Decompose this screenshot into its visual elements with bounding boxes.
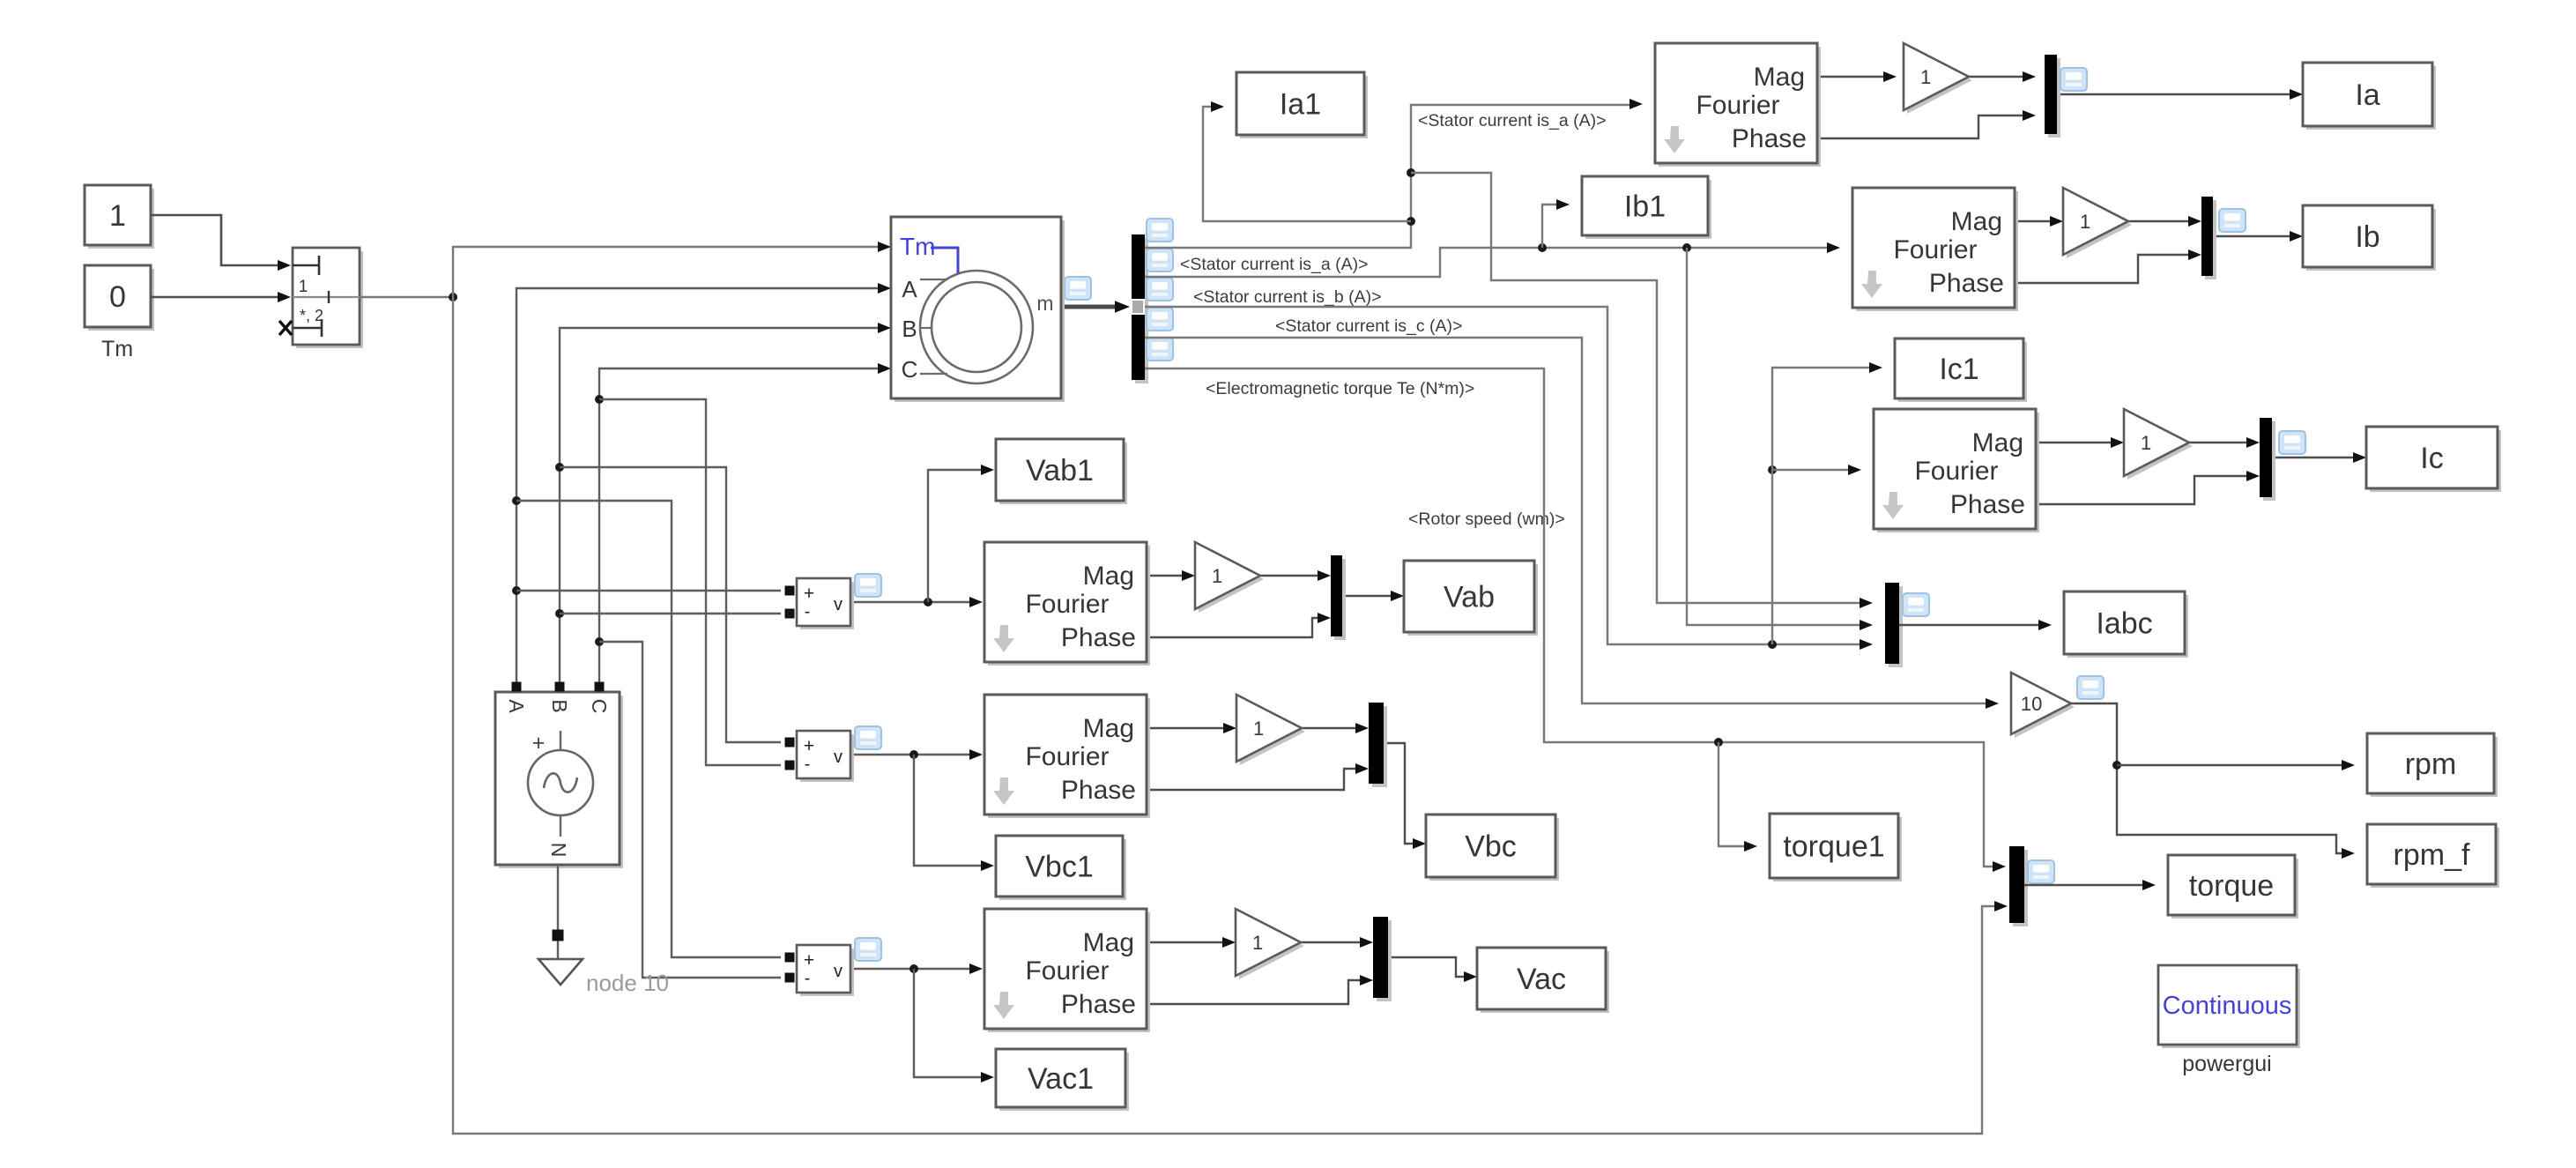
svg-text:Mag: Mag bbox=[1754, 63, 1805, 92]
Fourier block Ib bbox=[1856, 191, 2018, 311]
gain 1 Ic bbox=[2127, 413, 2193, 480]
gain 1 Ib bbox=[2067, 191, 2132, 258]
svg-text:Vac1: Vac1 bbox=[1028, 1062, 1094, 1096]
wire is_c to Fourier Ic bbox=[1772, 469, 1849, 471]
wire mux to Vab display bbox=[1342, 595, 1392, 597]
wire gain10 to rpm displays bbox=[2071, 703, 2342, 853]
svg-text:C: C bbox=[588, 699, 611, 714]
svg-text:rpm: rpm bbox=[2405, 748, 2457, 781]
wire tap B to Vab meter - bbox=[560, 613, 781, 614]
voltage measurement V1 (Vab) bbox=[800, 582, 854, 629]
svg-text:Fourier: Fourier bbox=[1696, 91, 1779, 120]
wire is_a to Ia1 display bbox=[1203, 107, 1411, 221]
wire is_b from bus bbox=[1145, 248, 1828, 277]
wire tap A to Vab meter + bbox=[516, 590, 781, 591]
gain 1 Vbc bbox=[1240, 698, 1305, 765]
wire tap C to Vbc meter - bbox=[599, 399, 781, 765]
wire Fourier Ic Mag to gain bbox=[2036, 442, 2112, 443]
svg-text:0: 0 bbox=[109, 280, 126, 314]
svg-text:-: - bbox=[805, 969, 811, 988]
svg-text:Ia: Ia bbox=[2355, 78, 2379, 112]
mux Ic bbox=[2263, 421, 2275, 501]
display Ic bbox=[2370, 430, 2501, 492]
svg-text:<Stator current is_b (A)>: <Stator current is_b (A)> bbox=[1193, 287, 1382, 307]
svg-text:Phase: Phase bbox=[1950, 490, 2025, 519]
wire Fourier Vac Phase to mux bbox=[1143, 980, 1361, 1004]
wire gain Ic to mux bbox=[2189, 442, 2247, 443]
display Ib1 bbox=[1585, 180, 1711, 239]
wire source N to ground bbox=[557, 865, 559, 959]
three-phase voltage source bbox=[499, 696, 623, 868]
svg-text:Ic1: Ic1 bbox=[1939, 353, 1978, 386]
svg-text:v: v bbox=[834, 595, 843, 614]
wire tap B to Vbc meter + bbox=[560, 467, 781, 742]
svg-text:Phase: Phase bbox=[1061, 623, 1136, 652]
svg-text:Vab: Vab bbox=[1444, 580, 1495, 614]
svg-text:v: v bbox=[834, 962, 843, 981]
svg-text:<Rotor speed (wm)>: <Rotor speed (wm)> bbox=[1408, 510, 1565, 529]
wire mux to Vac display bbox=[1388, 957, 1465, 977]
svg-text:node 10: node 10 bbox=[586, 970, 669, 996]
svg-text:<Stator current is_a (A)>: <Stator current is_a (A)> bbox=[1418, 111, 1607, 130]
wire Fourier Vbc Mag to gain bbox=[1143, 727, 1224, 729]
svg-text:A: A bbox=[505, 699, 528, 713]
wire Vab meter output to Fourier bbox=[850, 601, 970, 603]
svg-text:rpm_f: rpm_f bbox=[2394, 838, 2470, 872]
display Vac1 bbox=[999, 1053, 1129, 1111]
svg-text:B: B bbox=[902, 316, 917, 342]
svg-text:-: - bbox=[805, 755, 811, 774]
svg-text:Mag: Mag bbox=[1951, 207, 2002, 236]
svg-text:Tm: Tm bbox=[101, 337, 133, 361]
wire phase C bbox=[599, 368, 879, 690]
wire Vac meter output to Fourier bbox=[850, 968, 970, 970]
svg-text:1: 1 bbox=[1920, 66, 1931, 88]
wire Fourier Ic Phase to mux bbox=[2036, 476, 2247, 504]
svg-text:torque1: torque1 bbox=[1783, 830, 1884, 863]
svg-text:*, 2: *, 2 bbox=[300, 307, 323, 324]
wire gain Ia to mux bbox=[1969, 76, 2023, 78]
wire gain Vab to mux bbox=[1260, 575, 1318, 577]
svg-text:Tm: Tm bbox=[900, 233, 935, 260]
wire gain Ib to mux bbox=[2128, 220, 2189, 222]
svg-text:v: v bbox=[834, 748, 843, 767]
svg-text:1: 1 bbox=[1252, 932, 1263, 954]
display Vab1 bbox=[999, 443, 1127, 504]
svg-text:Phase: Phase bbox=[1929, 269, 2004, 298]
wire gain Vac to mux bbox=[1301, 941, 1361, 943]
svg-text:1: 1 bbox=[2141, 432, 2151, 454]
svg-text:1: 1 bbox=[109, 199, 126, 233]
svg-text:+: + bbox=[804, 950, 814, 971]
wire is_b to Iabc mux bbox=[1687, 248, 1860, 625]
svg-text:Fourier: Fourier bbox=[1025, 956, 1109, 986]
wire to rpm display bbox=[2117, 764, 2342, 766]
wire Fourier Vab Phase to mux bbox=[1143, 618, 1318, 637]
svg-text:Vbc: Vbc bbox=[1465, 830, 1517, 863]
Fourier block Vab bbox=[988, 546, 1150, 666]
svg-text:Mag: Mag bbox=[1083, 562, 1134, 591]
svg-text:1: 1 bbox=[299, 278, 308, 296]
wire is_b to Ib1 display bbox=[1542, 205, 1557, 248]
wire to Vac1 display bbox=[914, 969, 982, 1077]
svg-text:Mag: Mag bbox=[1083, 714, 1134, 743]
wire Fourier Ia Mag to gain bbox=[1817, 76, 1884, 78]
multiport switch bbox=[296, 251, 363, 348]
wire is_a from bus bbox=[1145, 105, 1630, 248]
mux Vac bbox=[1377, 920, 1392, 1001]
svg-text:1: 1 bbox=[1253, 718, 1264, 740]
svg-text:torque: torque bbox=[2189, 869, 2274, 903]
mux Ia bbox=[2048, 58, 2060, 138]
wire torque Te from bus bbox=[1145, 368, 1993, 867]
svg-text:Mag: Mag bbox=[1972, 428, 2023, 458]
display Vac bbox=[1481, 951, 1609, 1013]
display Vbc1 bbox=[999, 839, 1126, 900]
ground node 10 bbox=[538, 959, 583, 985]
asynchronous machine block bbox=[895, 220, 1065, 402]
Fourier block Ia bbox=[1659, 47, 1821, 167]
svg-text:Iabc: Iabc bbox=[2096, 606, 2152, 640]
wire tap A to Vac meter + bbox=[516, 501, 781, 957]
wire to Vbc1 display bbox=[914, 755, 982, 866]
display torque bbox=[2171, 859, 2298, 919]
wire Tm up to machine bbox=[453, 247, 879, 297]
svg-text:Ic: Ic bbox=[2420, 442, 2443, 475]
mux Ib bbox=[2205, 200, 2216, 279]
wire phase B bbox=[560, 328, 879, 690]
wire Fourier Vac Mag to gain bbox=[1143, 941, 1223, 943]
svg-text:Ib1: Ib1 bbox=[1624, 190, 1666, 223]
wire Iabc mux to display bbox=[1899, 624, 2039, 626]
svg-text:<Stator current is_a (A)>: <Stator current is_a (A)> bbox=[1180, 255, 1369, 274]
gain 1 Ia bbox=[1907, 47, 1972, 114]
wire phase A bbox=[516, 288, 879, 690]
svg-text:+: + bbox=[804, 584, 814, 604]
svg-text:+: + bbox=[804, 736, 814, 756]
svg-text:A: A bbox=[902, 276, 917, 302]
gain 1 Vab bbox=[1199, 546, 1264, 613]
Fourier block Ic bbox=[1877, 413, 2039, 532]
wire Fourier Ib Mag to gain bbox=[2015, 220, 2051, 222]
wire const1 to switch in1 bbox=[151, 215, 278, 265]
wire mux to Vbc display bbox=[1384, 743, 1414, 844]
wire torque Te to torque1 display bbox=[1719, 742, 1745, 846]
wire to Vab1 display bbox=[928, 470, 982, 602]
display Iabc bbox=[2067, 595, 2188, 658]
svg-text:1: 1 bbox=[1212, 565, 1222, 587]
wire is_c to Ic1 display bbox=[1772, 368, 1870, 644]
svg-text:1: 1 bbox=[2080, 211, 2090, 233]
voltage measurement V3 (Vac) bbox=[800, 949, 854, 996]
wire Vbc meter output to Fourier bbox=[850, 754, 970, 755]
svg-text:Fourier: Fourier bbox=[1914, 457, 1998, 486]
svg-text:Fourier: Fourier bbox=[1893, 235, 1977, 264]
display torque1 bbox=[1773, 817, 1902, 882]
wire Fourier Ia Phase to mux bbox=[1817, 115, 2023, 138]
svg-text:Mag: Mag bbox=[1083, 928, 1134, 957]
wire Tm feedback bottom loop to torque mux bbox=[453, 297, 1995, 1134]
wire switch output Tm bbox=[360, 296, 453, 298]
svg-text:+: + bbox=[532, 731, 546, 755]
wire mux to Ia display bbox=[2057, 93, 2290, 95]
svg-text:Phase: Phase bbox=[1732, 124, 1807, 153]
svg-text:Vac: Vac bbox=[1517, 963, 1566, 996]
constant block value 0 (Tm) bbox=[88, 269, 154, 331]
display Vbc bbox=[1429, 818, 1559, 881]
mux Vab bbox=[1334, 559, 1346, 640]
wire Fourier Vab Mag to gain bbox=[1143, 575, 1183, 577]
display Ia bbox=[2306, 66, 2436, 130]
svg-text:Continuous: Continuous bbox=[2163, 992, 2292, 1020]
wire is_c from bus bbox=[1145, 307, 1860, 644]
svg-text:<Electromagnetic torque Te (N*: <Electromagnetic torque Te (N*m)> bbox=[1206, 379, 1474, 398]
wire rotor speed wm from bus to gain 10 bbox=[1145, 338, 1986, 703]
wire Fourier Ib Phase to mux bbox=[2015, 255, 2189, 283]
voltage measurement V2 (Vbc) bbox=[800, 734, 854, 782]
svg-text:10: 10 bbox=[2021, 693, 2042, 715]
mux torque bbox=[2013, 850, 2028, 926]
wire const0 to switch in2 bbox=[151, 296, 278, 299]
display rpm bbox=[2371, 737, 2498, 797]
bus selector bar bbox=[1135, 238, 1148, 383]
mux Iabc bbox=[1889, 586, 1903, 667]
wire Fourier Vbc Phase to mux bbox=[1143, 769, 1356, 790]
bus selector signal badges bbox=[1147, 219, 1173, 242]
svg-text:Vab1: Vab1 bbox=[1026, 454, 1094, 487]
svg-text:Fourier: Fourier bbox=[1025, 742, 1109, 771]
svg-text:B: B bbox=[548, 699, 571, 712]
display Vab bbox=[1407, 564, 1538, 636]
display Ia1 bbox=[1240, 76, 1368, 138]
svg-text:Phase: Phase bbox=[1061, 990, 1136, 1019]
display Ic1 bbox=[1898, 342, 2027, 402]
display Ib bbox=[2306, 209, 2436, 271]
svg-text:-: - bbox=[805, 602, 811, 621]
svg-text:<Stator current is_c (A)>: <Stator current is_c (A)> bbox=[1275, 316, 1462, 336]
wire is_a to Iabc mux bbox=[1411, 173, 1860, 603]
svg-text:Ia1: Ia1 bbox=[1280, 87, 1321, 121]
svg-text:Vbc1: Vbc1 bbox=[1025, 850, 1094, 883]
wire mux to Ib display bbox=[2213, 235, 2290, 237]
display rpm_f bbox=[2371, 828, 2499, 888]
svg-text:Fourier: Fourier bbox=[1025, 590, 1109, 619]
svg-text:C: C bbox=[902, 356, 918, 383]
mux Vbc bbox=[1372, 706, 1387, 787]
Fourier block Vbc bbox=[988, 698, 1150, 818]
wire machine output m to bus selector bbox=[1061, 305, 1116, 309]
wire mux to Ic display bbox=[2272, 457, 2354, 458]
svg-text:m: m bbox=[1036, 292, 1053, 315]
gain 10 rotor speed bbox=[2015, 676, 2075, 738]
wire gain Vbc to mux bbox=[1302, 727, 1356, 729]
svg-text:Ib: Ib bbox=[2355, 220, 2379, 254]
Fourier block Vac bbox=[988, 912, 1150, 1032]
svg-text:powergui: powergui bbox=[2182, 1052, 2271, 1076]
wire torque mux to display bbox=[2024, 884, 2143, 886]
powergui block bbox=[2162, 969, 2300, 1048]
svg-text:Phase: Phase bbox=[1061, 776, 1136, 805]
unconnected port X marker on switch in3 bbox=[279, 321, 292, 335]
constant block value 1 bbox=[88, 189, 154, 249]
wire tap C to Vac meter - bbox=[599, 642, 781, 978]
svg-text:N: N bbox=[547, 843, 570, 858]
gain 1 Vac bbox=[1239, 912, 1304, 979]
